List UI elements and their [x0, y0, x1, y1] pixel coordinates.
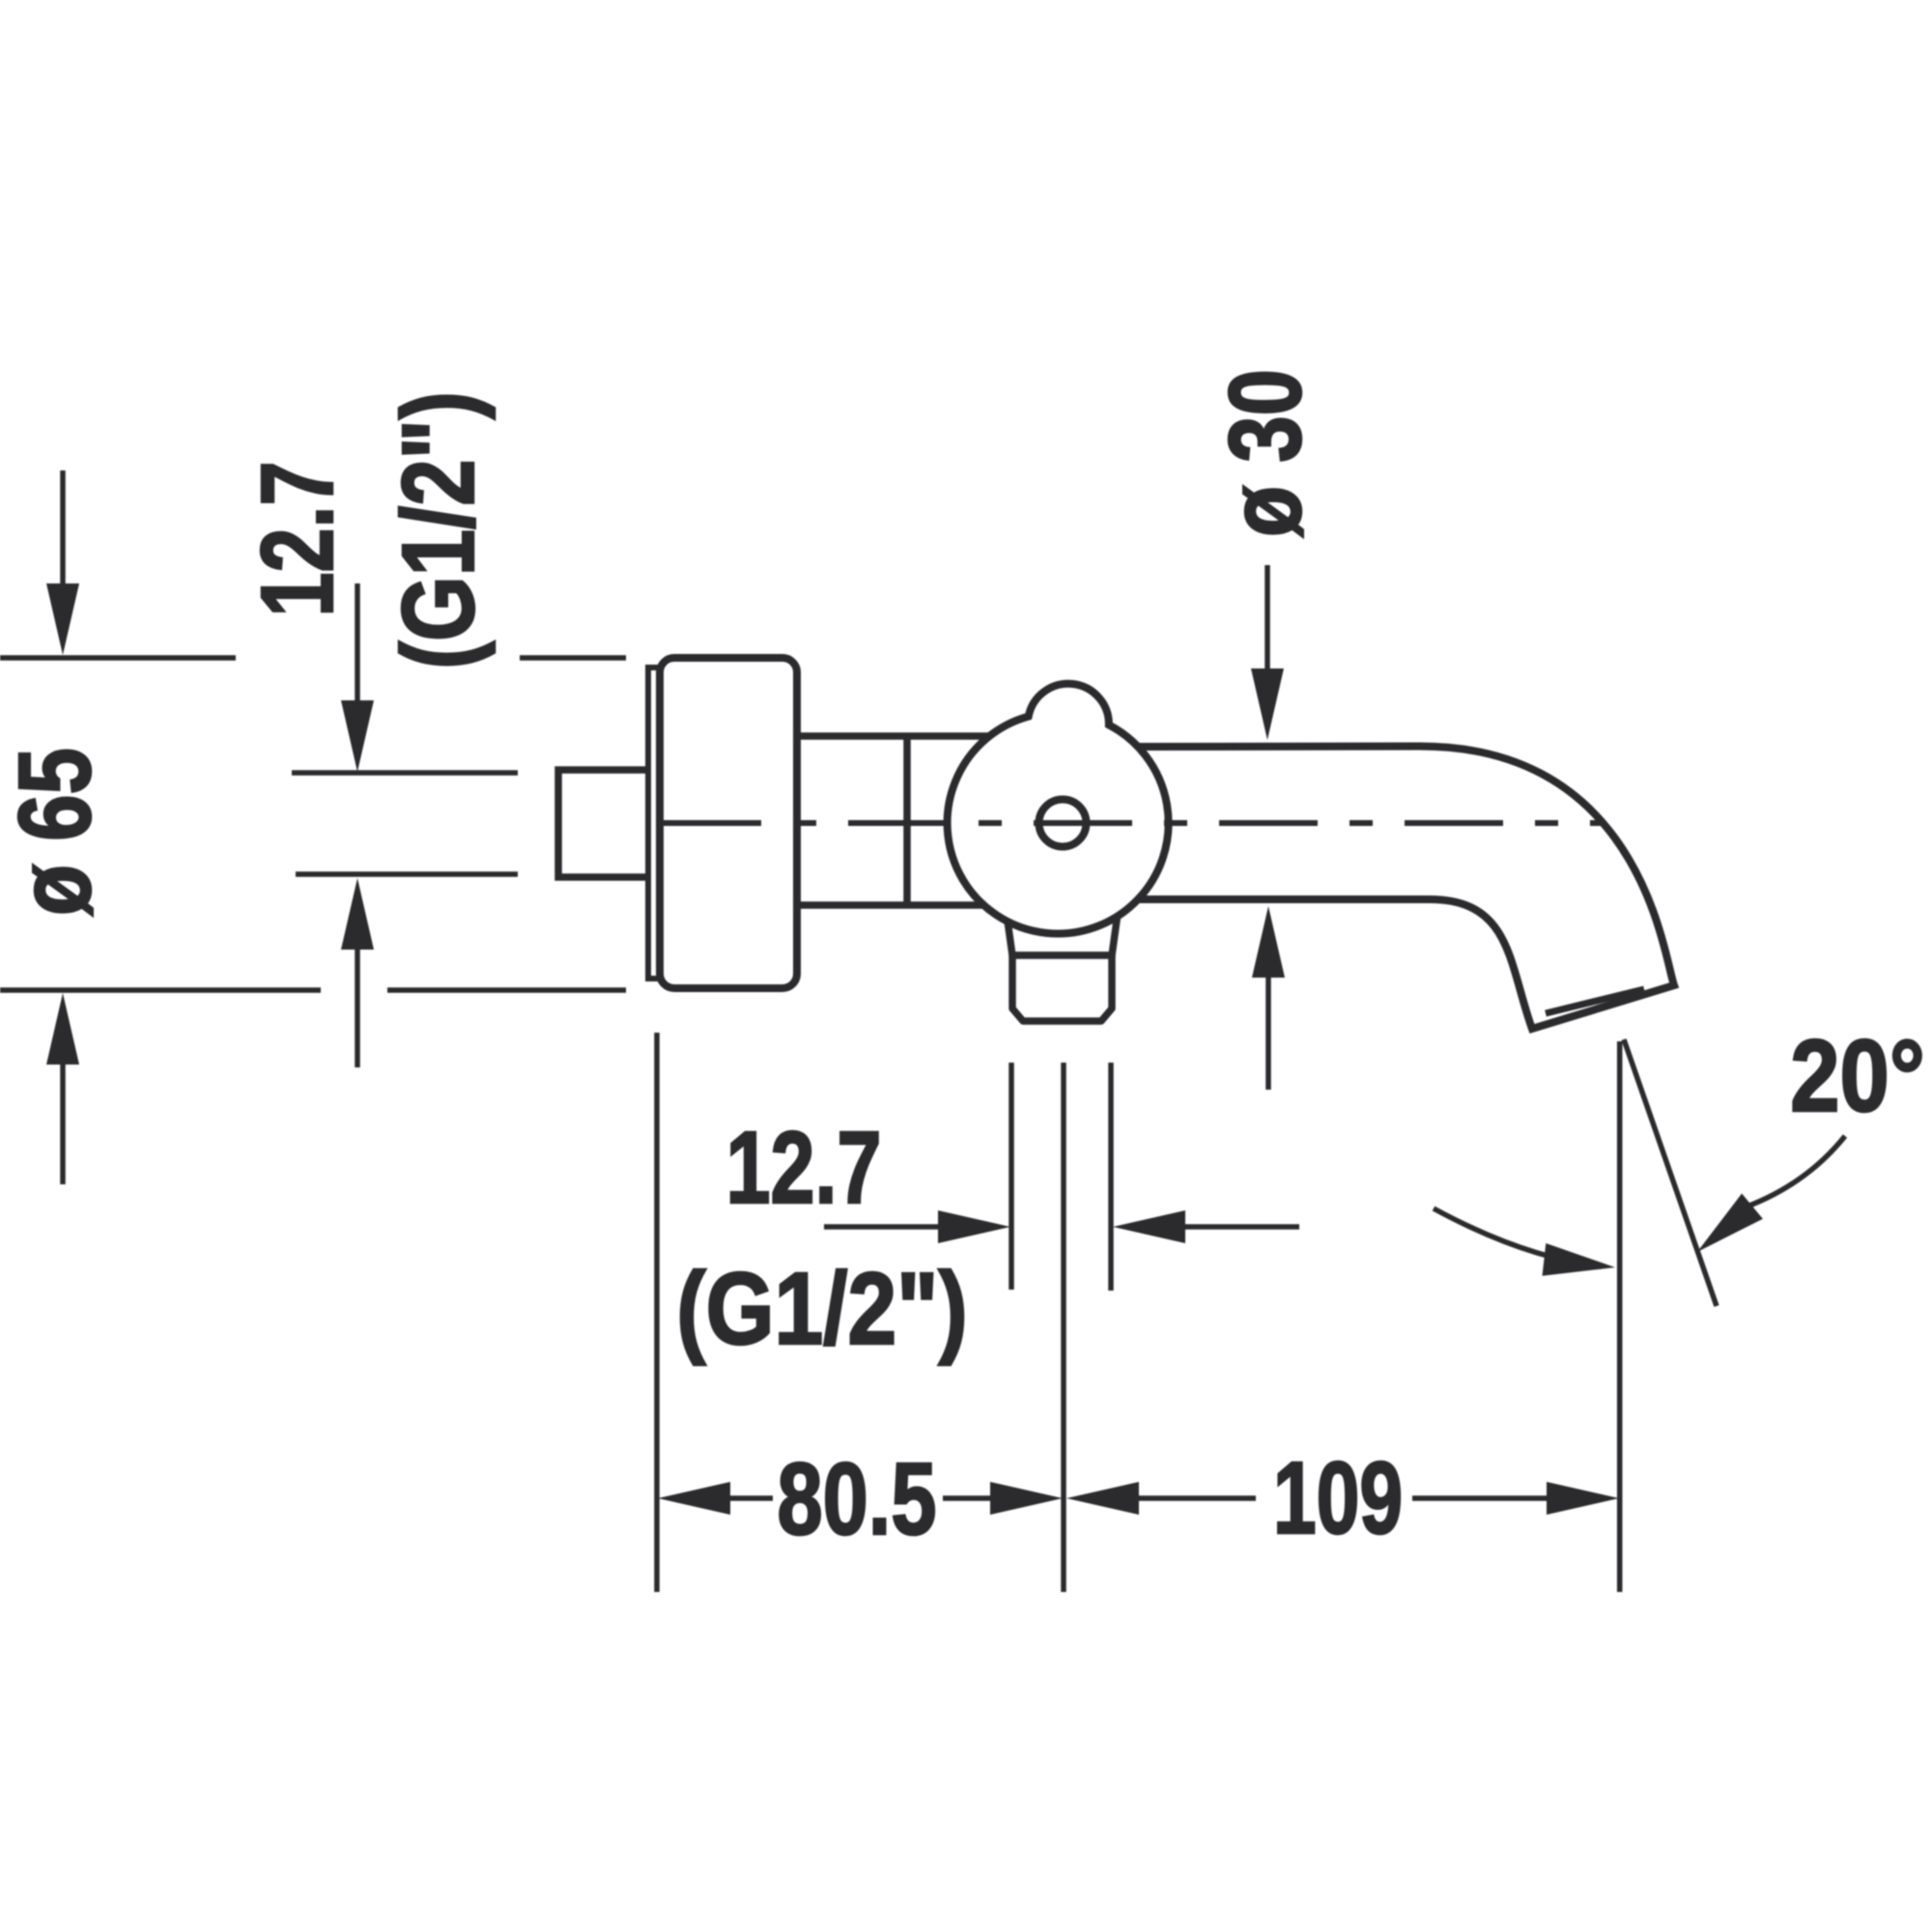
svg-text:ø 30: ø 30	[1207, 369, 1322, 537]
svg-text:109: 109	[1273, 1440, 1403, 1554]
svg-text:20°: 20°	[1790, 1019, 1924, 1133]
svg-text:(G1/2"): (G1/2")	[381, 391, 496, 669]
svg-text:80.5: 80.5	[777, 1442, 936, 1556]
svg-text:(G1/2"): (G1/2")	[676, 1252, 968, 1366]
svg-text:ø 65: ø 65	[0, 748, 112, 916]
svg-text:12.7: 12.7	[241, 462, 355, 617]
svg-text:12.7: 12.7	[726, 1111, 882, 1225]
